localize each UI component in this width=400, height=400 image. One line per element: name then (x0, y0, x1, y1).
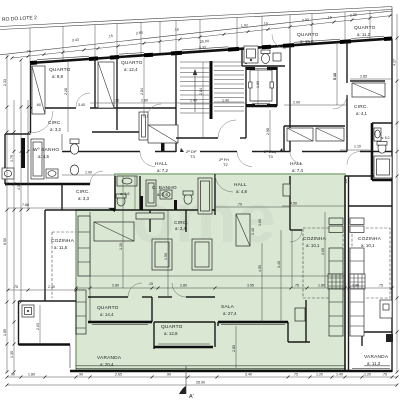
svg-text:2.65: 2.65 (115, 373, 122, 377)
quarto 14,4 walls (89, 212, 91, 322)
door corridor mid (237, 152, 252, 167)
kitchen white counter right (380, 300, 392, 318)
svg-text:1.40: 1.40 (222, 99, 229, 103)
bath core left wall (241, 49, 243, 66)
vertical interior dims (122, 176, 124, 288)
door circ 4,1 (333, 95, 347, 109)
sala varanda side walls (287, 322, 289, 342)
svg-text:3.40: 3.40 (277, 261, 281, 268)
bottom dim string 1 (7, 376, 397, 378)
right dim string (396, 14, 398, 372)
svg-text:SALA: SALA (221, 304, 235, 310)
svg-text:HALL: HALL (234, 182, 247, 188)
stairwell horizontal dim (90, 102, 246, 104)
svg-text:T3: T3 (268, 154, 273, 159)
door green bedroom a (128, 283, 142, 297)
svg-text:2.98: 2.98 (266, 128, 270, 135)
cozinha green top wall (290, 229, 302, 231)
svg-text:1.20: 1.20 (364, 373, 371, 377)
left dim string 4 (27, 100, 29, 210)
kitchen green sink hatched (328, 274, 343, 289)
svg-text:a: 3,6: a: 3,6 (120, 192, 130, 196)
door quarto 9,9 (76, 93, 90, 107)
svg-text:COZINHA: COZINHA (51, 238, 75, 244)
svg-text:.15: .15 (263, 21, 268, 26)
svg-text:.76: .76 (26, 49, 31, 54)
section marker A' (179, 386, 186, 394)
left exterior wall upper (30, 63, 32, 133)
corridor lower wall right of unit (345, 175, 392, 177)
svg-text:4.50: 4.50 (290, 202, 297, 206)
wardrobe closet strip (98, 62, 114, 108)
door stairwell (218, 120, 236, 138)
svg-text:2.88: 2.88 (350, 13, 357, 18)
svg-text:QUARTO: QUARTO (297, 32, 319, 38)
green IS toilet (117, 196, 125, 206)
svg-text:1.80: 1.80 (318, 284, 325, 288)
right bath toilet (378, 143, 386, 153)
bottom-left white room table (22, 305, 34, 317)
wardrobes (32, 62, 385, 270)
bath core bottom wall (242, 65, 285, 67)
core right wall (289, 45, 291, 152)
cozinha 11,5 dashed (51, 232, 53, 298)
svg-text:1.40: 1.40 (190, 99, 197, 103)
svg-text:.90: .90 (10, 373, 15, 377)
door corridor left unit (140, 152, 155, 167)
svg-text:a: 4,5: a: 4,5 (38, 154, 50, 159)
svg-text:1.80: 1.80 (352, 284, 359, 288)
green c.banho toilet (184, 194, 192, 204)
stair treads left flight (180, 68, 209, 113)
svg-text:a: 2,6: a: 2,6 (157, 192, 169, 197)
bottom exterior wall (70, 370, 392, 373)
kitchen white counter column (350, 248, 364, 336)
svg-text:2.80: 2.80 (136, 31, 143, 36)
svg-text:.90: .90 (78, 373, 83, 377)
svg-text:4.17: 4.17 (393, 59, 397, 66)
left bathroom tub (31, 139, 44, 179)
svg-text:.75: .75 (378, 284, 383, 288)
svg-text:1.50: 1.50 (164, 253, 168, 260)
svg-text:1.20: 1.20 (316, 373, 323, 377)
svg-text:a: 11,5: a: 11,5 (54, 245, 68, 250)
svg-text:2.84: 2.84 (140, 88, 144, 95)
corridor closet a (287, 128, 313, 141)
svg-text:VARANDA: VARANDA (97, 355, 122, 361)
svg-text:4.50: 4.50 (17, 183, 21, 190)
svg-text:QUARTO: QUARTO (121, 60, 143, 66)
wall quarto 12,4 right / stair left (175, 53, 177, 152)
left bath block outline (5, 133, 31, 135)
upper boundary offset line (0, 11, 392, 55)
svg-text:CIRC.: CIRC. (48, 120, 62, 126)
elevator bottom wall (246, 105, 277, 108)
cozinha 10,1 white dashed (352, 228, 390, 298)
svg-text:a: 7,4: a: 7,4 (292, 168, 304, 173)
svg-text:.15: .15 (327, 15, 332, 20)
green shelf bar (136, 213, 164, 219)
boundary wall lot 2 (0, 7, 392, 38)
green c.banho shower (198, 178, 212, 214)
svg-text:2.28: 2.28 (64, 88, 68, 95)
svg-text:a: 15,0: a: 15,0 (300, 39, 314, 44)
wardrobe green tall a (152, 239, 172, 270)
door core bath (272, 35, 286, 49)
svg-text:2.80: 2.80 (141, 99, 148, 103)
quarto 14,4 bottom window wall (88, 321, 152, 324)
svg-text:1.10: 1.10 (119, 243, 123, 250)
svg-text:1.75: 1.75 (10, 155, 14, 162)
stair landing line (180, 61, 244, 63)
svg-text:5.10: 5.10 (333, 73, 337, 80)
svg-text:2.80: 2.80 (180, 284, 187, 288)
circ 2,4 walls (149, 210, 151, 232)
svg-text:a: 4,8: a: 4,8 (236, 189, 248, 194)
right exterior wall (391, 39, 393, 373)
svg-text:2.33: 2.33 (3, 79, 7, 86)
quarto 12,8 walls (158, 296, 172, 298)
green mid horizontal dim string (76, 287, 392, 289)
stair bottom wall (176, 137, 218, 139)
green counter strip left (78, 216, 90, 276)
green hall 4.50 dim (282, 205, 345, 207)
svg-text:1.80: 1.80 (28, 373, 35, 377)
svg-text:CIRC.: CIRC. (354, 104, 368, 110)
left exterior wall lower (44, 210, 46, 301)
left bathroom toilet (70, 139, 79, 144)
wardrobe green tall b (192, 239, 212, 270)
svg-text:2.03: 2.03 (36, 323, 40, 330)
green c.banho sink (160, 190, 172, 199)
svg-text:CIRC.: CIRC. (76, 189, 90, 195)
svg-text:1.92: 1.92 (241, 23, 248, 28)
right bath tub (374, 156, 392, 178)
svg-text:a: 27,4: a: 27,4 (223, 311, 237, 316)
wall quarto 9,9 right (94, 59, 96, 108)
svg-text:a: 7,2: a: 7,2 (157, 168, 169, 173)
left 7.88 dim line (8, 207, 115, 209)
left wall circ 3,3 (61, 184, 63, 210)
cozinha white top wall (348, 205, 392, 207)
wall quarto 11,2 wardrobe shelf (350, 80, 385, 82)
svg-text:26.90: 26.90 (196, 381, 205, 385)
svg-text:2.84: 2.84 (199, 88, 203, 95)
connector ticks boundary to wall (30, 10, 392, 64)
svg-text:COZINHA: COZINHA (358, 236, 382, 242)
svg-text:2.40: 2.40 (48, 285, 55, 289)
svg-text:2.90: 2.90 (293, 101, 300, 105)
svg-text:Wº BANHO: Wº BANHO (33, 147, 59, 153)
svg-text:QUARTO: QUARTO (97, 305, 119, 311)
sloped facade wall (30, 39, 392, 64)
varanda right dark block (386, 334, 393, 342)
stairs and elevator (180, 61, 277, 119)
wall closet strip bottom (92, 131, 139, 133)
kitchen green counter column (329, 248, 343, 336)
green unit bath block walls (114, 176, 116, 210)
svg-text:QUARTO: QUARTO (161, 324, 183, 330)
unit divider wall green/white (344, 176, 346, 370)
svg-text:a: 10,1: a: 10,1 (306, 243, 320, 248)
wall quarto 15,0 / circ 4,1 (346, 42, 348, 84)
core bath toilet (261, 50, 270, 54)
kitchen green fridge stack (329, 218, 343, 224)
svg-text:HALL: HALL (155, 161, 168, 167)
door quarto 12,4 (147, 104, 161, 118)
left dim string 1 (6, 55, 8, 372)
stair right wall (245, 48, 247, 64)
corridor upper wall (62, 151, 140, 153)
facade window lines (37, 56, 89, 60)
sala bottom window wall (218, 321, 288, 324)
svg-text:T2: T2 (223, 162, 228, 167)
svg-text:.75: .75 (293, 373, 298, 377)
door left circ 3,3 (90, 171, 103, 184)
left .75 2.40 dim line (8, 289, 76, 291)
svg-text:a: 9,9: a: 9,9 (52, 74, 64, 79)
cozinha 10,1 green dashed (303, 228, 343, 298)
green c.banho tub (146, 180, 156, 206)
interior walls (19, 42, 393, 371)
svg-text:2.85: 2.85 (232, 345, 236, 352)
bottom dim string 2 (7, 384, 397, 386)
stair treads right flight (214, 66, 244, 111)
svg-text:a: 2,4: a: 2,4 (175, 226, 187, 231)
svg-text:.15: .15 (174, 27, 179, 32)
left bathroom bidet (70, 165, 78, 175)
svg-text:3.33: 3.33 (199, 45, 206, 50)
svg-text:3.43: 3.43 (72, 38, 79, 43)
wall closet strip right (116, 57, 118, 108)
svg-text:3.40: 3.40 (78, 103, 85, 107)
svg-text:.15: .15 (108, 34, 113, 39)
left bathroom inner wall pier (21, 138, 25, 168)
door left circ 3,2 (31, 111, 53, 133)
dark jamb quarto 12,4 (161, 125, 165, 151)
door right hall (347, 152, 360, 165)
svg-text:QUARTO: QUARTO (49, 67, 71, 73)
right bath sink (374, 128, 381, 141)
svg-text:1.40: 1.40 (251, 228, 255, 235)
top dimension string (0, 10, 392, 64)
core bath small sink (273, 53, 281, 61)
svg-text:QUARTO: QUARTO (354, 25, 376, 31)
svg-text:2.85: 2.85 (360, 75, 367, 79)
svg-text:COZINHA: COZINHA (303, 236, 327, 242)
svg-text:.26: .26 (344, 179, 348, 184)
svg-text:6.50: 6.50 (3, 238, 7, 245)
svg-text:a: 20,4: a: 20,4 (100, 362, 114, 367)
svg-text:a: 3,2: a: 3,2 (50, 127, 62, 132)
door corridor right unit (290, 152, 302, 164)
svg-text:C. BANHO: C. BANHO (152, 185, 177, 191)
elevator shaft right wall (276, 67, 278, 106)
green overlay T3 unit (76, 174, 345, 370)
kitchen white bottom-left block (19, 300, 77, 302)
core bath sink cabinet (244, 46, 258, 63)
cozinha white lower wall varanda 11,3 (362, 331, 392, 333)
kitchen white sink hatched (350, 274, 365, 289)
green 1.90 dim (62, 174, 115, 176)
svg-text:.75: .75 (382, 373, 387, 377)
wall quarto 9,9 bottom (30, 107, 76, 109)
stair stringer (210, 61, 213, 119)
wardrobe quarto 9,9 (32, 66, 45, 114)
right bath walls (371, 123, 374, 180)
svg-text:2.80: 2.80 (112, 284, 119, 288)
svg-text:A': A' (189, 394, 194, 400)
svg-text:1.60: 1.60 (258, 219, 262, 226)
svg-text:.15: .15 (114, 99, 119, 103)
svg-text:1.90: 1.90 (85, 171, 92, 175)
dark jamb c.banho (140, 196, 143, 210)
dim ticks (11, 14, 392, 59)
svg-text:.75: .75 (13, 285, 18, 289)
svg-text:a: 11,3: a: 11,3 (367, 361, 381, 366)
svg-text:3.40: 3.40 (245, 373, 252, 377)
left dim string 2 (13, 100, 15, 372)
fixtures (2, 46, 393, 342)
elevator car (250, 70, 272, 101)
svg-text:a: 14,4: a: 14,4 (100, 312, 114, 317)
wardrobe quarto 11,2 (352, 83, 385, 97)
svg-text:1.10: 1.10 (354, 145, 361, 149)
svg-text:7.88: 7.88 (22, 203, 29, 207)
svg-text:a: 4,1: a: 4,1 (356, 111, 368, 116)
svg-text:2.93: 2.93 (302, 18, 309, 23)
corner jamb circ 3,3 (108, 208, 115, 212)
main sloped dimension string (12, 16, 392, 59)
svg-text:1.60: 1.60 (256, 81, 260, 88)
hall small cabinet (283, 184, 290, 196)
svg-text:.90: .90 (166, 373, 171, 377)
svg-text:a: 5,0: a: 5,0 (381, 136, 390, 140)
corridor closet b (316, 128, 344, 141)
kitchen white fridge stack (350, 218, 364, 224)
svg-text:VARANDA: VARANDA (364, 354, 389, 360)
green hall right wall (289, 176, 291, 230)
door cozinha green (290, 230, 302, 242)
svg-text:.60: .60 (36, 103, 41, 107)
svg-text:3.60: 3.60 (321, 248, 325, 255)
quarto 15 2.90 dim (284, 104, 347, 106)
svg-text:a: 12,4: a: 12,4 (124, 67, 138, 72)
svg-text:a: 12,8: a: 12,8 (164, 331, 178, 336)
svg-text:a: 11,2: a: 11,2 (357, 32, 371, 37)
right 1.10 dim (340, 149, 372, 151)
svg-text:.75: .75 (294, 284, 299, 288)
svg-text:HALL: HALL (290, 161, 303, 167)
door arcs (31, 35, 360, 298)
quarto 11,2 2.85 dim (350, 78, 392, 80)
stair up arrow (194, 72, 196, 112)
building top wall (30, 36, 392, 63)
left ticks (6, 56, 30, 374)
left bathroom sink (46, 169, 58, 178)
elevator shaft dark jambs (246, 67, 255, 70)
left dim string 3 (20, 60, 22, 302)
door green bedroom b (172, 283, 186, 297)
green hall small dim (215, 206, 290, 208)
green IS room counter (117, 176, 137, 186)
svg-text:1.35: 1.35 (10, 351, 14, 358)
svg-text:4.50: 4.50 (258, 265, 262, 272)
svg-text:3.55: 3.55 (247, 284, 254, 288)
svg-text:a: 10,1: a: 10,1 (361, 243, 375, 248)
svg-text:1.40: 1.40 (336, 373, 343, 377)
door green hall entry (215, 174, 233, 192)
wardrobe green big counter (94, 222, 134, 241)
svg-text:1.85: 1.85 (3, 329, 7, 336)
left laundry washer (2, 168, 14, 179)
facade piers (30, 39, 392, 64)
svg-text:a: 3,3: a: 3,3 (78, 196, 90, 201)
svg-text:T3: T3 (190, 154, 195, 159)
svg-text:.15: .15 (148, 282, 153, 286)
closet wall corridor (284, 125, 345, 127)
svg-text:.70: .70 (237, 203, 242, 207)
wardrobe green sala tall (236, 214, 250, 246)
